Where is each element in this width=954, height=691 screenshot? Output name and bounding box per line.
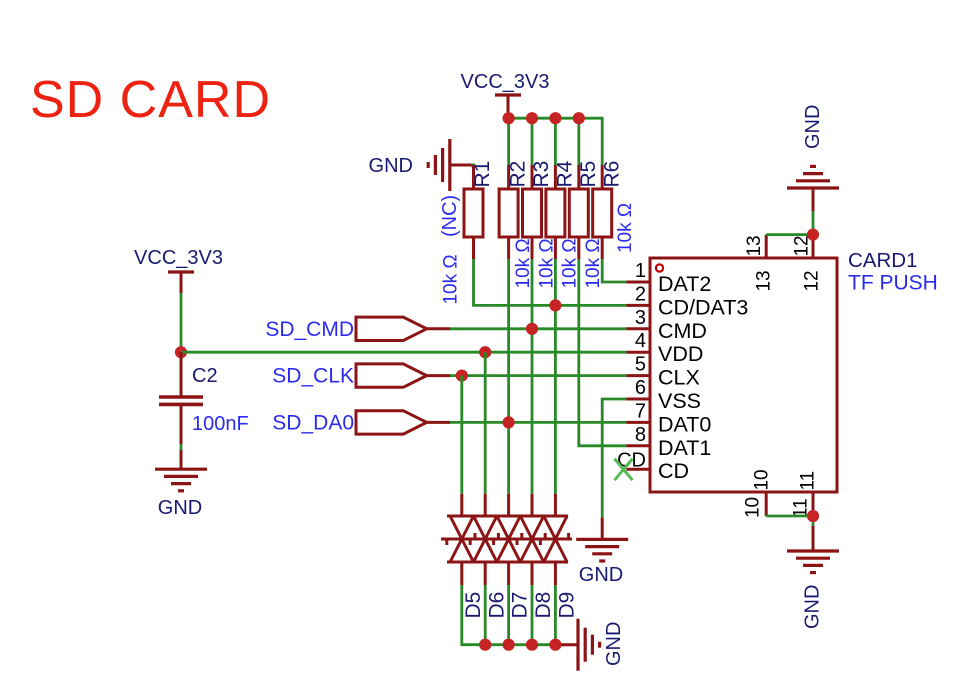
label SD_CLK	[272, 365, 354, 388]
pin 13 stub	[765, 235, 768, 258]
wire stub to R2	[507, 118, 510, 165]
wire CLK column to D5	[460, 376, 463, 494]
label TF PUSH	[848, 272, 938, 295]
label SD_CMD	[265, 318, 354, 341]
svg-text:DAT1: DAT1	[658, 436, 711, 460]
pin number 13	[744, 235, 765, 256]
pin label DAT2	[658, 272, 711, 296]
wire stub to R5	[577, 118, 580, 165]
resistor R1	[464, 165, 483, 259]
pin label VDD	[658, 342, 703, 366]
wire R2 column (DAT0)	[507, 259, 510, 494]
label GND (R1)	[369, 155, 413, 177]
pin name 13 (inside)	[753, 270, 774, 291]
label (NC)	[439, 195, 461, 237]
pin label VSS	[658, 389, 701, 413]
label SD_DA0	[272, 411, 354, 434]
svg-text:10k Ω: 10k Ω	[615, 203, 636, 253]
pin label CLX	[658, 366, 700, 390]
label R2	[507, 161, 530, 188]
svg-text:10: 10	[742, 497, 763, 518]
svg-text:R3: R3	[530, 161, 553, 188]
label C2	[192, 365, 218, 387]
svg-text:GND: GND	[158, 497, 202, 519]
svg-text:SD_CLK: SD_CLK	[272, 365, 354, 388]
net port SD_DA0	[356, 411, 450, 434]
pin 8 stub	[626, 444, 650, 447]
junction bus at D7	[503, 639, 515, 651]
svg-text:CLX: CLX	[658, 366, 700, 390]
junction node VCC/C2/VDD	[175, 346, 187, 358]
wire D9 to bus	[554, 585, 557, 645]
svg-text:TF PUSH: TF PUSH	[848, 272, 938, 295]
pin 7 stub	[626, 421, 650, 424]
svg-text:VCC_3V3: VCC_3V3	[134, 247, 223, 269]
svg-text:5: 5	[635, 354, 646, 376]
svg-text:SD_DA0: SD_DA0	[272, 411, 354, 434]
svg-text:100nF: 100nF	[192, 413, 249, 435]
junction top bus at R3	[526, 112, 538, 124]
svg-text:6: 6	[635, 377, 646, 399]
svg-text:DAT0: DAT0	[658, 412, 711, 436]
junction CLK column	[456, 370, 468, 382]
wire SD_CMD to pin 3	[450, 327, 626, 330]
junction R3/CMD	[526, 323, 538, 335]
pin number 8	[635, 424, 646, 446]
wire R6 to pin 1 (DAT2)	[602, 259, 626, 282]
svg-text:D5: D5	[462, 592, 485, 619]
svg-text:D7: D7	[509, 592, 532, 619]
svg-text:DAT2: DAT2	[658, 272, 711, 296]
svg-text:10: 10	[751, 469, 772, 490]
pin label DAT1	[658, 436, 711, 460]
label 10k Ohm R5	[583, 238, 604, 288]
resistor R6	[593, 165, 612, 259]
svg-text:1: 1	[635, 260, 646, 282]
wire D7 to bus	[507, 585, 510, 645]
svg-text:CMD: CMD	[658, 319, 707, 343]
svg-text:4: 4	[635, 330, 646, 352]
label D5	[462, 592, 485, 619]
svg-text:CARD1: CARD1	[848, 249, 918, 272]
svg-text:GND: GND	[579, 564, 623, 586]
wire D8 to bus	[531, 585, 534, 645]
svg-text:GND: GND	[802, 585, 824, 629]
label D6	[485, 592, 508, 619]
svg-text:C2: C2	[192, 365, 218, 387]
wire R5 to pin 8 (DAT1)	[579, 259, 627, 446]
wire R3 column (CMD)	[531, 259, 534, 494]
junction top bus at R5	[573, 112, 585, 124]
ground (R1 top)	[428, 139, 473, 191]
TVS diode array body	[441, 494, 572, 585]
wire R4 column (CD/DAT3)	[554, 259, 557, 494]
svg-text:VCC_3V3: VCC_3V3	[461, 71, 550, 93]
pin name CD (outside)	[617, 450, 646, 472]
label 10k Ohm R6	[615, 203, 636, 253]
pin label CD/DAT3	[658, 295, 748, 319]
pin CD stub	[626, 468, 650, 471]
pin 11 stub	[812, 492, 815, 516]
pin number 5	[635, 354, 646, 376]
pin 1 stub	[626, 281, 650, 284]
label R1	[471, 161, 494, 188]
pin number 3	[635, 307, 646, 329]
label D9	[555, 592, 578, 619]
svg-text:R1: R1	[471, 161, 494, 188]
svg-text:SD_CMD: SD_CMD	[265, 318, 354, 341]
title text SD CARD	[30, 71, 271, 129]
capacitor C2	[159, 352, 203, 444]
pin 1 marker circle	[656, 264, 663, 271]
wire C2 to ground	[180, 444, 183, 450]
junction R4/CDDAT3	[549, 299, 561, 311]
pin 6 stub	[626, 398, 650, 401]
svg-text:3: 3	[635, 307, 646, 329]
svg-text:D8: D8	[532, 592, 555, 619]
svg-text:R5: R5	[577, 161, 600, 188]
wire pin 10 to pin 11 node	[766, 516, 813, 526]
power flag VCC_3V3 (left)	[134, 247, 223, 293]
junction top bus at R2	[503, 112, 515, 124]
junction bus at D9	[549, 639, 561, 651]
label 10k Ohm R3	[536, 238, 557, 288]
resistor R3	[523, 165, 542, 259]
ground (VSS)	[576, 517, 628, 561]
pin number 12	[791, 235, 812, 256]
junction R2/DAT0	[503, 416, 515, 428]
pin 5 stub	[626, 374, 650, 377]
pin label CD	[658, 459, 689, 483]
pin name 11 (inside)	[797, 471, 818, 491]
pin 12 stub	[812, 235, 815, 258]
junction bus at D6	[479, 639, 491, 651]
svg-text:11: 11	[797, 471, 818, 491]
junction VDD column	[479, 346, 491, 358]
svg-text:CD: CD	[658, 459, 689, 483]
label CARD1	[848, 249, 918, 272]
label GND (VSS)	[579, 564, 623, 586]
label 100nF	[192, 413, 249, 435]
pin label DAT0	[658, 412, 711, 436]
svg-text:10k Ω: 10k Ω	[440, 254, 461, 304]
pin name 12 (inside)	[801, 270, 822, 291]
wire D6 to bus	[484, 585, 487, 645]
svg-text:R2: R2	[507, 161, 530, 188]
ground (top right)	[787, 166, 839, 211]
wire pin 6 VSS to ground	[602, 399, 626, 517]
svg-text:8: 8	[635, 424, 646, 446]
junction top bus at R4	[549, 112, 561, 124]
wire top bus VCC to R6	[509, 118, 603, 165]
no-connect cross on CD	[615, 459, 633, 481]
wire stub to R4	[554, 118, 557, 165]
svg-text:D6: D6	[485, 592, 508, 619]
svg-text:13: 13	[744, 235, 765, 256]
label R4	[553, 160, 576, 187]
svg-text:D9: D9	[555, 592, 578, 619]
svg-text:GND: GND	[603, 622, 625, 666]
svg-text:13: 13	[753, 270, 774, 291]
label GND (bottom bus)	[603, 622, 625, 666]
net port SD_CMD	[356, 317, 450, 340]
pin 10 stub	[765, 492, 768, 516]
junction bottom ground node	[807, 510, 819, 522]
svg-text:GND: GND	[369, 155, 413, 177]
svg-text:CD/DAT3: CD/DAT3	[658, 295, 748, 319]
wire bottom bus	[462, 585, 561, 645]
svg-text:SD CARD: SD CARD	[30, 71, 271, 129]
resistor R2	[499, 165, 518, 259]
label R3	[530, 161, 553, 188]
net port SD_CLK	[356, 364, 450, 387]
svg-text:12: 12	[801, 270, 822, 291]
label D8	[532, 592, 555, 619]
label 10k Ohm R2	[513, 238, 534, 288]
wire stub to R3	[531, 118, 534, 165]
pin number 4	[635, 330, 646, 352]
ground (bottom right)	[787, 526, 839, 573]
wire R1 to pin 2 (CD/DAT3)	[474, 259, 627, 305]
junction bus at D8	[526, 639, 538, 651]
svg-text:VSS: VSS	[658, 389, 701, 413]
label D7	[509, 592, 532, 619]
pin number 1	[635, 260, 646, 282]
ground (below C2)	[155, 450, 207, 491]
svg-text:R4: R4	[553, 160, 576, 187]
node R1 top	[472, 164, 476, 168]
pin number 6	[635, 377, 646, 399]
pin label CMD	[658, 319, 707, 343]
pin 2 stub	[626, 304, 650, 307]
svg-text:GND: GND	[802, 105, 824, 149]
pin number 2	[635, 283, 646, 305]
resistor R5	[569, 165, 588, 259]
label GND (top right)	[802, 105, 824, 149]
junction top ground node	[807, 229, 819, 241]
svg-text:2: 2	[635, 283, 646, 305]
wire pin 13 to pin 12 node	[766, 211, 813, 235]
label 10k Ohm R1	[440, 254, 461, 304]
connector CARD1 body	[650, 258, 837, 492]
svg-text:7: 7	[635, 400, 646, 422]
label GND (below C2)	[158, 497, 202, 519]
pin 4 stub	[626, 351, 650, 354]
resistor R4	[546, 165, 565, 259]
pin 3 stub	[626, 327, 650, 330]
pin name 10 (inside)	[751, 469, 772, 490]
pin number 10	[742, 497, 763, 518]
svg-text:VDD: VDD	[658, 342, 703, 366]
label R5	[577, 161, 600, 188]
wire SD_DA0 to pin 7	[450, 421, 626, 424]
label GND (bottom right)	[802, 585, 824, 629]
wire VCC_3V3 to node	[180, 293, 183, 352]
svg-text:R6: R6	[600, 161, 623, 188]
ground (bottom bus)	[561, 619, 600, 671]
label 10k Ohm R4	[560, 238, 581, 288]
wire SD_CLK to pin 5	[450, 374, 626, 377]
power flag VCC_3V3 (top)	[461, 71, 550, 118]
svg-text:(NC): (NC)	[439, 195, 461, 237]
label R6	[600, 161, 623, 188]
wire VDD column to D6	[484, 352, 487, 494]
pin number 11	[790, 498, 811, 518]
pin number 7	[635, 400, 646, 422]
wire VDD net (node to connector pin 4)	[181, 351, 626, 354]
